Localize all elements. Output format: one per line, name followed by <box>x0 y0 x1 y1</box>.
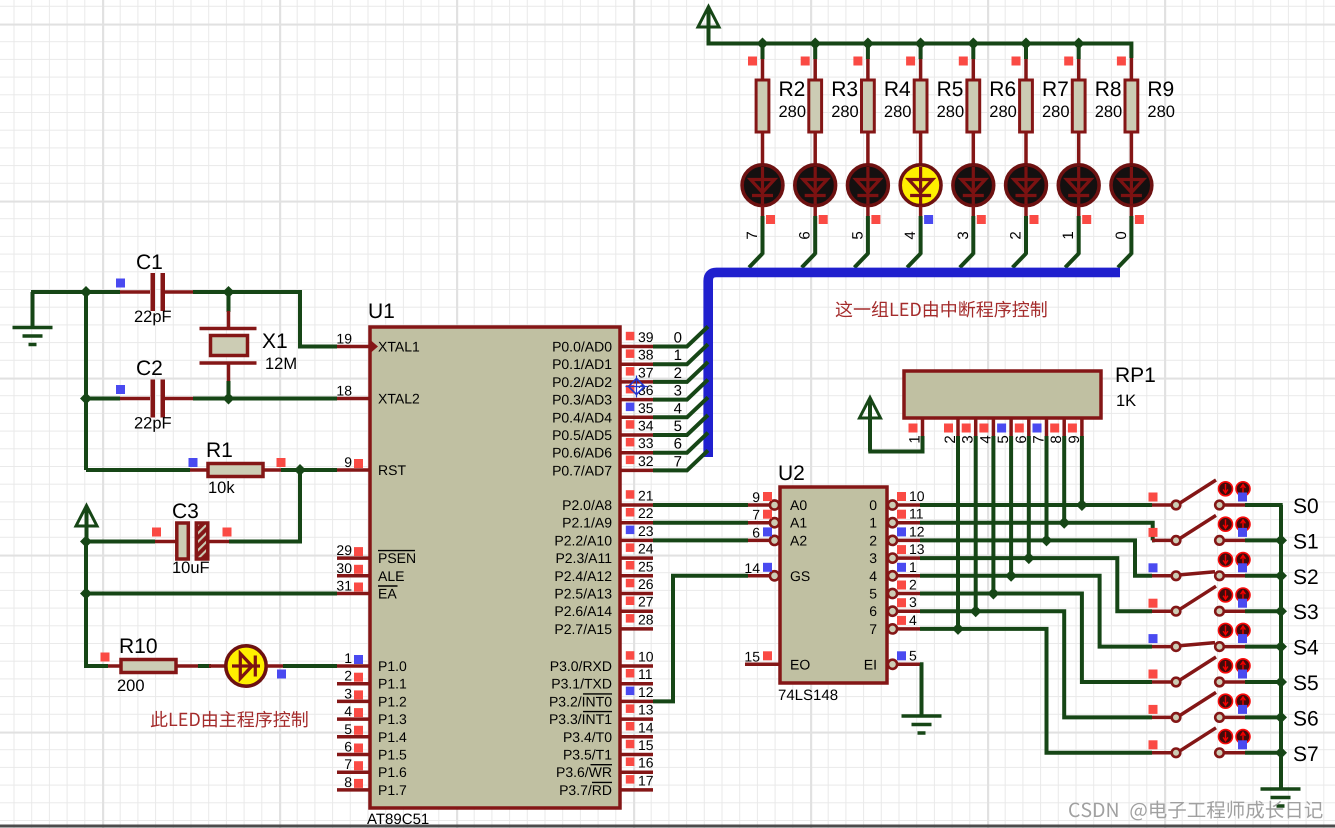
pin 26 P2.5 (U1 right) <box>620 592 653 596</box>
wire RP1 pin1 to power <box>868 436 922 452</box>
junction right rail S7 <box>1275 747 1287 759</box>
junction power rail / R8 <box>1073 38 1085 50</box>
svg-text:9: 9 <box>344 454 352 470</box>
pin 32 P0.7 (U1 right) <box>620 469 653 473</box>
wire P0.2 to bus <box>653 362 708 382</box>
U1 overline PSEN <box>378 550 415 552</box>
svg-text:A0: A0 <box>790 497 807 513</box>
pin 8 (RP1) <box>1062 418 1066 437</box>
junction right rail S3 <box>1275 605 1287 617</box>
svg-text:30: 30 <box>336 560 352 576</box>
svg-text:P0.3/AD3: P0.3/AD3 <box>552 392 612 408</box>
svg-text:2: 2 <box>344 668 352 684</box>
junction power rail / R2 <box>757 38 769 50</box>
pin 16 P3.6 (U1 right) <box>620 770 653 774</box>
junction crystal top <box>223 286 235 298</box>
switch S5 <box>1152 680 1171 684</box>
pin 35 P0.4 (U1 right) <box>620 416 653 420</box>
svg-text:6: 6 <box>344 739 352 755</box>
junction right rail S2 <box>1275 570 1287 582</box>
svg-text:4: 4 <box>869 568 877 584</box>
junction right rail S1 <box>1275 534 1287 546</box>
wire row1 to S1 <box>920 523 1153 541</box>
pin 11 P3.1 (U1 right) <box>620 682 653 686</box>
svg-text:PSEN: PSEN <box>378 550 416 566</box>
svg-text:12: 12 <box>909 523 925 539</box>
svg-text:8: 8 <box>344 774 352 790</box>
svg-text:P2.1/A9: P2.1/A9 <box>562 515 612 531</box>
svg-text:10: 10 <box>638 649 654 665</box>
svg-text:C3: C3 <box>172 500 199 523</box>
capacitor C3 10uF <box>86 540 155 544</box>
pin 28 P2.7 (U1 right) <box>620 627 653 631</box>
svg-text:RST: RST <box>378 462 406 478</box>
junction right rail S6 <box>1275 711 1287 723</box>
pin 12 P3.2 (U1 right) <box>620 700 653 704</box>
cursor crosshair <box>629 379 645 395</box>
power symbol (RP1) <box>860 398 881 419</box>
svg-text:23: 23 <box>638 523 654 539</box>
junction right rail S4 <box>1275 641 1287 653</box>
wire R10 to LED D1 <box>198 664 211 668</box>
svg-text:200: 200 <box>117 677 145 695</box>
svg-text:6: 6 <box>869 603 877 619</box>
svg-text:15: 15 <box>744 648 760 664</box>
pin 13 P3.3 (U1 right) <box>620 717 653 721</box>
svg-text:1: 1 <box>344 650 352 666</box>
svg-text:XTAL1: XTAL1 <box>378 339 420 355</box>
wire LED D6 to bus <box>971 216 975 255</box>
svg-text:P0.0/AD0: P0.0/AD0 <box>552 339 612 355</box>
svg-text:7: 7 <box>344 756 352 772</box>
wire S5 to right rail <box>1245 680 1283 684</box>
pin 10 P3.0 (U1 right) <box>620 664 653 668</box>
svg-text:P0.1/AD1: P0.1/AD1 <box>552 356 612 372</box>
svg-text:280: 280 <box>884 103 912 121</box>
pin 4 P1.3 (U1 left) <box>337 717 370 721</box>
wire row2 to S2 <box>920 540 1152 575</box>
capacitor C1 22pF <box>116 279 125 288</box>
pin 5 (RP1) <box>1009 418 1013 437</box>
wire LED D2 to bus <box>761 216 765 255</box>
pin XTAL1 clock arrow <box>371 341 378 353</box>
pin 24 P2.3 (U1 right) <box>620 556 653 560</box>
svg-text:EA: EA <box>378 586 397 602</box>
svg-text:R4: R4 <box>884 78 911 101</box>
svg-text:P3.6/WR: P3.6/WR <box>556 764 612 780</box>
svg-text:18: 18 <box>336 383 352 399</box>
resistor R2 280 <box>761 58 765 80</box>
svg-text:EO: EO <box>790 656 810 672</box>
svg-text:13: 13 <box>909 541 925 557</box>
junction RP1 pin8/row 1 <box>1058 517 1070 529</box>
wire RST junction down to C3 row <box>229 470 300 542</box>
wire S0 to right rail <box>1245 503 1283 507</box>
svg-text:R10: R10 <box>119 635 158 658</box>
junction power rail / R4 <box>862 38 874 50</box>
resistor R9 280 <box>1130 58 1134 80</box>
junction power rail / R5 <box>915 38 927 50</box>
pin 14 GS (U2 left) <box>748 574 770 578</box>
pin 2 Q5 (U2 right) <box>888 589 897 598</box>
junction right rail S5 <box>1275 676 1287 688</box>
pin 4 (RP1) <box>992 418 996 437</box>
svg-text:21: 21 <box>638 488 654 504</box>
svg-text:29: 29 <box>336 542 352 558</box>
wire RP1 pin8 to row 1 <box>1062 436 1066 523</box>
pin 2 (RP1) <box>956 418 960 437</box>
pin 4 Q7 (U2 right) <box>888 624 897 633</box>
pin 11 Q1 (U2 right) <box>888 518 897 527</box>
pin 5 EI (U2 right) <box>888 660 897 669</box>
svg-text:25: 25 <box>638 558 654 574</box>
pin 21 P2.0 (U1 right) <box>620 503 653 507</box>
resistor R5 280 <box>919 58 923 80</box>
pin 1 P1.0 (U1 left) <box>337 664 370 668</box>
op-amp U2 body (74LS148) <box>780 487 887 683</box>
junction C3 row <box>80 536 92 548</box>
wire RP1 pin7 to row 2 <box>1045 436 1049 540</box>
wire P0.0 to bus <box>653 327 708 347</box>
ground (U2 EI) <box>902 714 942 718</box>
svg-text:P3.3/INT1: P3.3/INT1 <box>549 711 612 727</box>
svg-text:2: 2 <box>869 532 877 548</box>
junction RST row <box>294 464 306 476</box>
LED D6 (net 3) <box>953 165 994 206</box>
junction C2 row / left rail <box>80 393 92 405</box>
wire LED D8 to bus <box>1077 216 1081 255</box>
U1 overline INT1 <box>583 711 612 713</box>
svg-text:S0: S0 <box>1293 495 1319 518</box>
pin 12 Q2 (U2 right) <box>888 536 897 545</box>
wire EA row <box>86 592 337 596</box>
pin 39 P0.0 (U1 right) <box>620 345 653 349</box>
svg-text:4: 4 <box>674 400 682 417</box>
LED D5 (net 4) <box>900 165 941 206</box>
switch S0 <box>1152 503 1171 507</box>
pin 5 P1.4 (U1 left) <box>337 735 370 739</box>
wire P0.6 to bus <box>653 433 708 453</box>
wire LED D5 to bus <box>919 216 923 255</box>
svg-text:2: 2 <box>909 577 917 593</box>
pin 22 P2.1 (U1 right) <box>620 521 653 525</box>
ground (switch rail) <box>1261 787 1301 791</box>
svg-text:P2.7/A15: P2.7/A15 <box>554 621 612 637</box>
svg-text:1: 1 <box>909 559 917 575</box>
svg-text:P2.4/A12: P2.4/A12 <box>554 568 612 584</box>
pin 18 XTAL2 (U1 left) <box>337 397 370 401</box>
watermark CSDN <box>1069 801 1322 821</box>
svg-text:6: 6 <box>752 524 760 540</box>
svg-text:26: 26 <box>638 576 654 592</box>
svg-text:3: 3 <box>674 383 682 400</box>
svg-text:35: 35 <box>638 400 654 416</box>
svg-text:7: 7 <box>869 621 877 637</box>
wire RP1 pin9 to row 0 <box>1080 436 1084 505</box>
svg-text:R9: R9 <box>1147 78 1174 101</box>
LED D9 (net 0) <box>1111 165 1152 206</box>
wire S3 to right rail <box>1245 609 1283 613</box>
svg-text:4: 4 <box>344 703 352 719</box>
svg-text:280: 280 <box>989 103 1017 121</box>
bottom window border <box>0 825 1335 828</box>
pin 19 XTAL1 (U1 left) <box>337 345 370 349</box>
text: main program LED note <box>151 711 308 728</box>
pin 36 P0.3 (U1 right) <box>620 398 653 402</box>
svg-text:14: 14 <box>744 560 760 576</box>
junction RP1 pin7/row 2 <box>1041 534 1053 546</box>
pin 14 P3.4 (U1 right) <box>620 735 653 739</box>
wire row0 to S0 <box>920 503 1152 507</box>
svg-text:C1: C1 <box>136 251 163 274</box>
wire P2.0 to A0 <box>653 503 748 507</box>
crystal X1 12M <box>227 292 231 312</box>
pin 8 P1.7 (U1 left) <box>337 788 370 792</box>
wire RP1 pin4 to row 5 <box>991 436 995 594</box>
svg-text:P1.3: P1.3 <box>378 711 407 727</box>
pin 15 P3.5 (U1 right) <box>620 753 653 757</box>
wire row6 to S6 <box>920 611 1152 717</box>
wire P0.3 to bus <box>653 380 708 400</box>
pin 2 P1.1 (U1 left) <box>337 682 370 686</box>
svg-text:32: 32 <box>638 453 654 469</box>
wire S4 to right rail <box>1245 645 1283 649</box>
svg-text:280: 280 <box>1042 103 1070 121</box>
LED D1 (yellow, P1.0) <box>209 664 226 668</box>
pin 7 A1 (U2 left) <box>748 521 770 525</box>
wire P0.4 to bus <box>653 397 708 417</box>
svg-text:S3: S3 <box>1293 601 1319 624</box>
svg-text:R2: R2 <box>779 78 806 101</box>
wire top power rail <box>709 42 1132 58</box>
svg-text:33: 33 <box>638 435 654 451</box>
pin 3 P1.2 (U1 left) <box>337 700 370 704</box>
svg-text:0: 0 <box>674 330 682 347</box>
svg-text:17: 17 <box>638 772 654 788</box>
wire S2 to right rail <box>1245 574 1283 578</box>
wire XTAL2 row <box>84 397 120 401</box>
svg-text:3: 3 <box>344 685 352 701</box>
resistor R4 280 <box>866 58 870 80</box>
pin 7 (RP1) <box>1045 418 1049 437</box>
svg-text:P1.2: P1.2 <box>378 693 407 709</box>
svg-text:7: 7 <box>752 507 760 523</box>
svg-text:22: 22 <box>638 505 654 521</box>
svg-text:280: 280 <box>1095 103 1123 121</box>
svg-text:S1: S1 <box>1293 530 1319 553</box>
svg-text:P3.4/T0: P3.4/T0 <box>563 729 612 745</box>
wire C2 to XTAL2 <box>193 397 337 401</box>
svg-text:P2.6/A14: P2.6/A14 <box>554 603 612 619</box>
op-amp U1 body (AT89C51) <box>370 327 620 808</box>
svg-text:1K: 1K <box>1116 392 1136 410</box>
pin 6 (RP1) <box>1027 418 1031 437</box>
junction RP1 pin2/row 7 <box>952 623 964 635</box>
svg-text:37: 37 <box>638 364 654 380</box>
wire left rail down to R10 <box>86 594 108 667</box>
pin 38 P0.1 (U1 right) <box>620 362 653 366</box>
pin 27 P2.6 (U1 right) <box>620 609 653 613</box>
wire left rail (C3..EA) <box>84 542 88 595</box>
wire P0.5 to bus <box>653 415 708 435</box>
svg-text:5: 5 <box>909 647 917 663</box>
wire LED D1 to P1.0 <box>283 664 337 668</box>
wire P0.1 to bus <box>653 344 708 364</box>
svg-text:ALE: ALE <box>378 568 404 584</box>
svg-text:U1: U1 <box>368 300 395 323</box>
switch S6 <box>1152 716 1171 720</box>
svg-text:GS: GS <box>790 568 810 584</box>
wire row7 to S7 <box>920 629 1152 753</box>
pin 9 (RP1) <box>1080 418 1084 437</box>
svg-text:P2.3/A11: P2.3/A11 <box>555 550 612 566</box>
svg-text:2: 2 <box>1008 231 1025 239</box>
svg-text:38: 38 <box>638 347 654 363</box>
svg-text:31: 31 <box>336 578 352 594</box>
junction power rail / R7 <box>1020 38 1032 50</box>
switch S7 <box>1152 751 1171 755</box>
svg-text:12: 12 <box>638 684 654 700</box>
pin 13 Q3 (U2 right) <box>888 554 897 563</box>
pin 9 A0 (U2 left) <box>748 503 770 507</box>
svg-text:RP1: RP1 <box>1115 364 1156 387</box>
svg-text:P2.0/A8: P2.0/A8 <box>562 497 612 513</box>
switch S2 <box>1152 574 1171 578</box>
pin 1 (RP1) <box>921 418 925 437</box>
junction RP1 pin4/row 5 <box>987 588 999 600</box>
svg-text:3: 3 <box>955 231 972 239</box>
wire OSC top row <box>31 290 120 294</box>
resistor R7 280 <box>1024 58 1028 80</box>
U1 overline INT0 <box>583 693 612 695</box>
svg-text:15: 15 <box>638 737 654 753</box>
svg-text:6: 6 <box>674 436 682 453</box>
svg-text:12M: 12M <box>265 355 297 373</box>
svg-text:P3.0/RXD: P3.0/RXD <box>550 658 612 674</box>
pin 17 P3.7 (U1 right) <box>620 788 653 792</box>
switch S1 <box>1152 539 1171 543</box>
wire P2.2 to A2 <box>653 538 748 542</box>
junction power rail / R6 <box>967 38 979 50</box>
ground (top left) <box>31 292 35 328</box>
pin 7 P1.6 (U1 left) <box>337 770 370 774</box>
resistor pack RP1 1K <box>904 371 1101 418</box>
wire P3.2/INT0 to GS <box>653 576 748 702</box>
wire row5 to S5 <box>920 594 1152 683</box>
wire right rail (S0..ground) <box>1279 505 1283 789</box>
svg-text:280: 280 <box>937 103 965 121</box>
svg-text:R6: R6 <box>989 78 1016 101</box>
wire P2.1 to A1 <box>653 521 748 525</box>
U1 overline RD <box>592 781 612 783</box>
svg-text:P0.7/AD7: P0.7/AD7 <box>552 462 612 478</box>
LED D3 (net 6) <box>795 165 836 206</box>
svg-text:10uF: 10uF <box>172 559 210 577</box>
wire S1 to right rail <box>1245 538 1283 542</box>
svg-text:7: 7 <box>674 453 682 470</box>
wire RP1 pin5 to row 4 <box>1009 436 1013 576</box>
pin 31 EA (U1 left) <box>337 592 370 596</box>
svg-text:R3: R3 <box>831 78 858 101</box>
U1 overline EA <box>378 585 398 587</box>
svg-text:P1.0: P1.0 <box>378 658 407 674</box>
svg-text:A1: A1 <box>790 515 807 531</box>
svg-text:P1.1: P1.1 <box>378 676 407 692</box>
svg-text:U2: U2 <box>778 462 805 485</box>
wire LED D4 to bus <box>866 216 870 255</box>
svg-text:5: 5 <box>674 418 682 435</box>
resistor R3 280 <box>813 58 817 80</box>
svg-text:P0.5/AD5: P0.5/AD5 <box>552 427 612 443</box>
wire S6 to right rail <box>1245 715 1283 719</box>
svg-text:6: 6 <box>797 231 814 239</box>
pin 10 Q0 (U2 right) <box>888 500 897 509</box>
svg-text:EI: EI <box>864 656 877 672</box>
svg-text:74LS148: 74LS148 <box>778 687 838 704</box>
wire RP1 pin2 to row 7 <box>956 436 960 629</box>
svg-text:XTAL2: XTAL2 <box>378 391 420 407</box>
svg-text:S6: S6 <box>1293 707 1319 730</box>
svg-text:39: 39 <box>638 329 654 345</box>
svg-text:16: 16 <box>638 755 654 771</box>
U1 overline WR <box>591 764 613 766</box>
svg-text:P1.6: P1.6 <box>378 764 407 780</box>
svg-text:3: 3 <box>869 550 877 566</box>
pin 30 ALE (U1 left) <box>337 574 370 578</box>
svg-text:4: 4 <box>909 612 917 628</box>
pin 23 P2.2 (U1 right) <box>620 539 653 543</box>
wire P0.7 to bus <box>653 450 708 470</box>
pin 1 Q4 (U2 right) <box>888 571 897 580</box>
svg-text:5: 5 <box>869 586 877 602</box>
pin 25 P2.4 (U1 right) <box>620 574 653 578</box>
wire row3 to S3 <box>920 558 1152 611</box>
wire EI to ground <box>920 664 922 716</box>
svg-text:22pF: 22pF <box>134 415 172 433</box>
resistor R6 280 <box>972 58 976 80</box>
svg-text:280: 280 <box>1147 103 1175 121</box>
svg-text:S7: S7 <box>1293 743 1319 766</box>
LED D2 (net 7) <box>742 165 783 206</box>
svg-text:P1.5: P1.5 <box>378 747 407 763</box>
pin 6 P1.5 (U1 left) <box>337 753 370 757</box>
switch S4 <box>1152 645 1171 649</box>
svg-text:R5: R5 <box>937 78 964 101</box>
svg-text:11: 11 <box>909 506 924 522</box>
svg-text:2: 2 <box>674 365 682 382</box>
pin 34 P0.5 (U1 right) <box>620 433 653 437</box>
capacitor C2 22pF <box>116 385 125 394</box>
svg-text:280: 280 <box>831 103 859 121</box>
svg-text:P2.2/A10: P2.2/A10 <box>554 532 612 548</box>
wire LED D3 to bus <box>813 216 817 255</box>
junction power rail / R3 <box>809 38 821 50</box>
svg-text:19: 19 <box>336 331 352 347</box>
svg-text:0: 0 <box>869 497 877 513</box>
svg-text:1: 1 <box>1060 231 1077 239</box>
wire row4 to S4 <box>920 576 1152 647</box>
resistor R10 200 <box>101 653 110 662</box>
svg-text:C2: C2 <box>136 357 163 380</box>
svg-text:280: 280 <box>779 103 807 121</box>
svg-text:0: 0 <box>1113 231 1130 239</box>
junction crystal bottom <box>223 393 235 405</box>
wire left rail (C1..RST) <box>84 292 88 470</box>
junction RP1 pin6/row 3 <box>1023 552 1035 564</box>
pin 9 RST (U1 left) <box>337 468 370 472</box>
svg-text:S2: S2 <box>1293 566 1319 589</box>
svg-text:P3.5/T1: P3.5/T1 <box>563 747 612 763</box>
